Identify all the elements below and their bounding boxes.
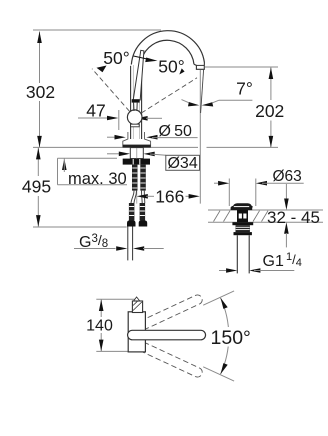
dimension 495 top arrow — [36, 148, 41, 160]
threaded stud left — [132, 165, 138, 191]
dimension 495 bottom arrow — [36, 215, 41, 227]
dimension 302 top arrow — [37, 32, 42, 44]
svg-text:Ø63: Ø63 — [273, 168, 302, 185]
deck hatching — [214, 211, 269, 222]
swivel leg lower — [203, 367, 234, 381]
dimension 140 top arrow — [99, 300, 104, 312]
7 deg leader left — [182, 100, 189, 103]
drain deck bottom line — [208, 221, 323, 223]
extension line: deck underside (max.30) — [58, 157, 118, 159]
ghost lever right (dashed) — [141, 78, 197, 113]
dimension 140 line — [100, 299, 102, 317]
lever stem into ball — [133, 103, 135, 111]
body top view — [128, 312, 145, 352]
dimension 202 bottom arrow — [269, 136, 274, 148]
escutcheon bell — [123, 132, 151, 147]
leader from left 50 deg label — [134, 56, 151, 60]
svg-text:max. 30: max. 30 — [68, 170, 127, 188]
drain flange below deck — [232, 222, 253, 225]
spout top view (stadium) — [128, 330, 206, 340]
svg-text:150°: 150° — [211, 327, 251, 349]
drain cap dome — [231, 204, 252, 210]
spout tip — [194, 63, 204, 70]
hose fitting right — [140, 203, 146, 221]
extension line bottom (body bottom) — [96, 350, 146, 352]
arrowhead below right 50 deg label — [179, 68, 184, 74]
G1 1/4 dimension — [219, 270, 226, 272]
dimension 302 bottom arrow — [37, 136, 42, 148]
escutcheon dark base — [123, 145, 151, 148]
extension line: hose end level — [33, 226, 127, 228]
max.30 arrow — [62, 159, 67, 171]
7 deg leader right — [219, 99, 252, 101]
dimension 495 line — [37, 147, 39, 176]
dimension 47 line — [78, 117, 112, 119]
extension line top (handle tip level) — [96, 298, 136, 300]
extension line: deck surface left part — [33, 146, 198, 148]
svg-text:47: 47 — [86, 101, 105, 121]
riser column — [130, 66, 132, 139]
faucet centerline — [136, 148, 138, 204]
drain deck top line — [208, 209, 323, 211]
ghost lever left (dashed) — [92, 69, 130, 112]
extension line: outlet vertical — [199, 70, 201, 204]
svg-text:32 - 45: 32 - 45 — [267, 208, 320, 227]
svg-text:50°: 50° — [103, 48, 129, 68]
extension line: deck surface right part — [207, 146, 279, 148]
drain tail pipe — [236, 235, 238, 273]
svg-text:495: 495 — [22, 177, 51, 197]
dimension 202 line — [270, 68, 272, 101]
max.30 leader frame — [57, 158, 59, 184]
ghost spout upper (dashed) — [140, 295, 202, 330]
locking nut below deck — [123, 159, 150, 165]
diameter 50 dimension — [107, 136, 119, 138]
diameter 34 dimension arrows — [107, 153, 120, 155]
cap nut right — [139, 221, 148, 227]
diameter 34 box — [166, 155, 200, 170]
spout outer arc — [131, 31, 204, 65]
threaded stud right — [140, 165, 146, 191]
47 extension line (lever swing) — [118, 110, 120, 130]
swivel arc arrowheads — [221, 298, 228, 309]
dimension 47 left arrow — [107, 116, 118, 121]
svg-text:Ø34: Ø34 — [167, 155, 197, 172]
dimension 202 top arrow — [269, 68, 274, 80]
hose transition right — [141, 191, 144, 203]
dimension 140 bottom arrow — [99, 340, 104, 352]
spray line 7 deg — [201, 70, 204, 113]
svg-text:7°: 7° — [236, 79, 253, 99]
handle ball — [127, 110, 142, 125]
label 150 deg — [209, 327, 250, 347]
supply tube — [127, 227, 129, 261]
swivel arc 150 deg — [221, 298, 229, 336]
diameter 63 dimension — [214, 182, 218, 184]
extension line: spout top level — [33, 29, 161, 31]
dimension 166 — [137, 194, 148, 199]
handle top view — [134, 297, 140, 301]
diameter 34 leader to box — [150, 154, 166, 155]
drain body between deck — [237, 210, 248, 222]
drain threaded ring — [236, 225, 250, 232]
svg-text:202: 202 — [255, 101, 284, 121]
svg-text:302: 302 — [26, 82, 55, 102]
dimension 47 right arrow — [136, 116, 147, 121]
hose transition left — [131, 191, 134, 203]
lever shaft — [133, 50, 144, 100]
drain lower ring — [234, 232, 252, 235]
G3/8 dimension — [74, 248, 116, 250]
swivel leg upper — [203, 291, 234, 305]
extension line: outlet level to 202 — [205, 66, 279, 68]
cap nut left — [127, 221, 136, 227]
dimension 302 line — [39, 32, 41, 84]
svg-text:140: 140 — [86, 318, 113, 335]
svg-text:166: 166 — [155, 187, 184, 207]
hose fitting left — [129, 203, 135, 221]
arrowhead at left ghost end — [97, 66, 107, 73]
ball collar — [131, 124, 140, 127]
ghost spout lower (dashed) — [140, 342, 202, 377]
diameter 63 extension lines — [228, 179, 230, 207]
spout inner arc — [142, 40, 194, 64]
lever base band — [132, 99, 140, 102]
dimension 32-45 — [285, 184, 287, 199]
shank between deck lines — [130, 148, 143, 159]
